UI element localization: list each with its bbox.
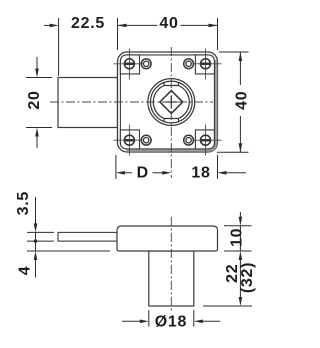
svg-text:D: D <box>137 164 149 181</box>
lock plate outline (top view) <box>118 52 218 152</box>
dimension 20 left <box>26 57 52 148</box>
corner pocket bottom-left <box>120 130 139 149</box>
svg-text:18: 18 <box>191 164 210 181</box>
dimension diameter 18 <box>122 310 220 331</box>
plate inner outline <box>120 55 214 149</box>
screw hole top-left with crosshair <box>114 49 143 80</box>
svg-text:Ø18: Ø18 <box>155 314 187 331</box>
svg-text:10: 10 <box>229 228 246 247</box>
corner pocket top-right <box>195 55 214 74</box>
svg-text:3.5: 3.5 <box>15 191 32 215</box>
svg-text:40: 40 <box>159 15 178 32</box>
side view spindle rod <box>58 232 117 241</box>
svg-text:4: 4 <box>16 266 33 276</box>
barrel housing (top view) <box>58 78 118 128</box>
corner pocket top-left <box>120 55 139 74</box>
dimension 40 right <box>217 52 251 152</box>
svg-text:22.5: 22.5 <box>71 15 105 32</box>
svg-text:(32): (32) <box>239 262 256 293</box>
side view flange plate <box>117 226 218 251</box>
dimension 22.5 <box>44 15 105 76</box>
dimension 18 <box>191 155 246 181</box>
dimension D <box>116 155 171 181</box>
svg-text:20: 20 <box>26 90 43 109</box>
screw hole bottom-right with crosshair <box>193 125 222 156</box>
plate shadow band right+bottom <box>127 60 216 150</box>
screw hole top-right with crosshair <box>193 49 222 80</box>
dimension 4 <box>16 232 110 277</box>
dimension 10 right <box>224 212 252 251</box>
dimension 3.5 <box>15 191 54 241</box>
side view centerline <box>170 217 172 311</box>
svg-text:40: 40 <box>234 91 251 110</box>
cylinder centerlines <box>50 47 213 178</box>
dimension 22 / (32) right <box>203 251 256 306</box>
lock cylinder outer circles <box>148 79 195 126</box>
plain hole bottom-right <box>184 135 194 145</box>
screw hole bottom-left with crosshair <box>114 125 143 156</box>
plain hole top-right <box>184 59 194 69</box>
corner pocket bottom-right <box>195 130 214 149</box>
plain hole bottom-left <box>141 135 151 145</box>
cylinder core with flats <box>153 83 189 122</box>
plain hole top-left <box>141 59 151 69</box>
side view cylinder body <box>149 251 194 306</box>
diamond spindle hole <box>160 91 183 114</box>
dimension 40 top <box>118 15 218 50</box>
